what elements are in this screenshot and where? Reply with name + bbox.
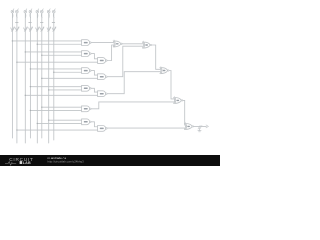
svg-text:http://circuitlab.com/c24bhq3: http://circuitlab.com/c24bhq3 bbox=[48, 159, 85, 163]
svg-text:LAB: LAB bbox=[23, 160, 31, 164]
